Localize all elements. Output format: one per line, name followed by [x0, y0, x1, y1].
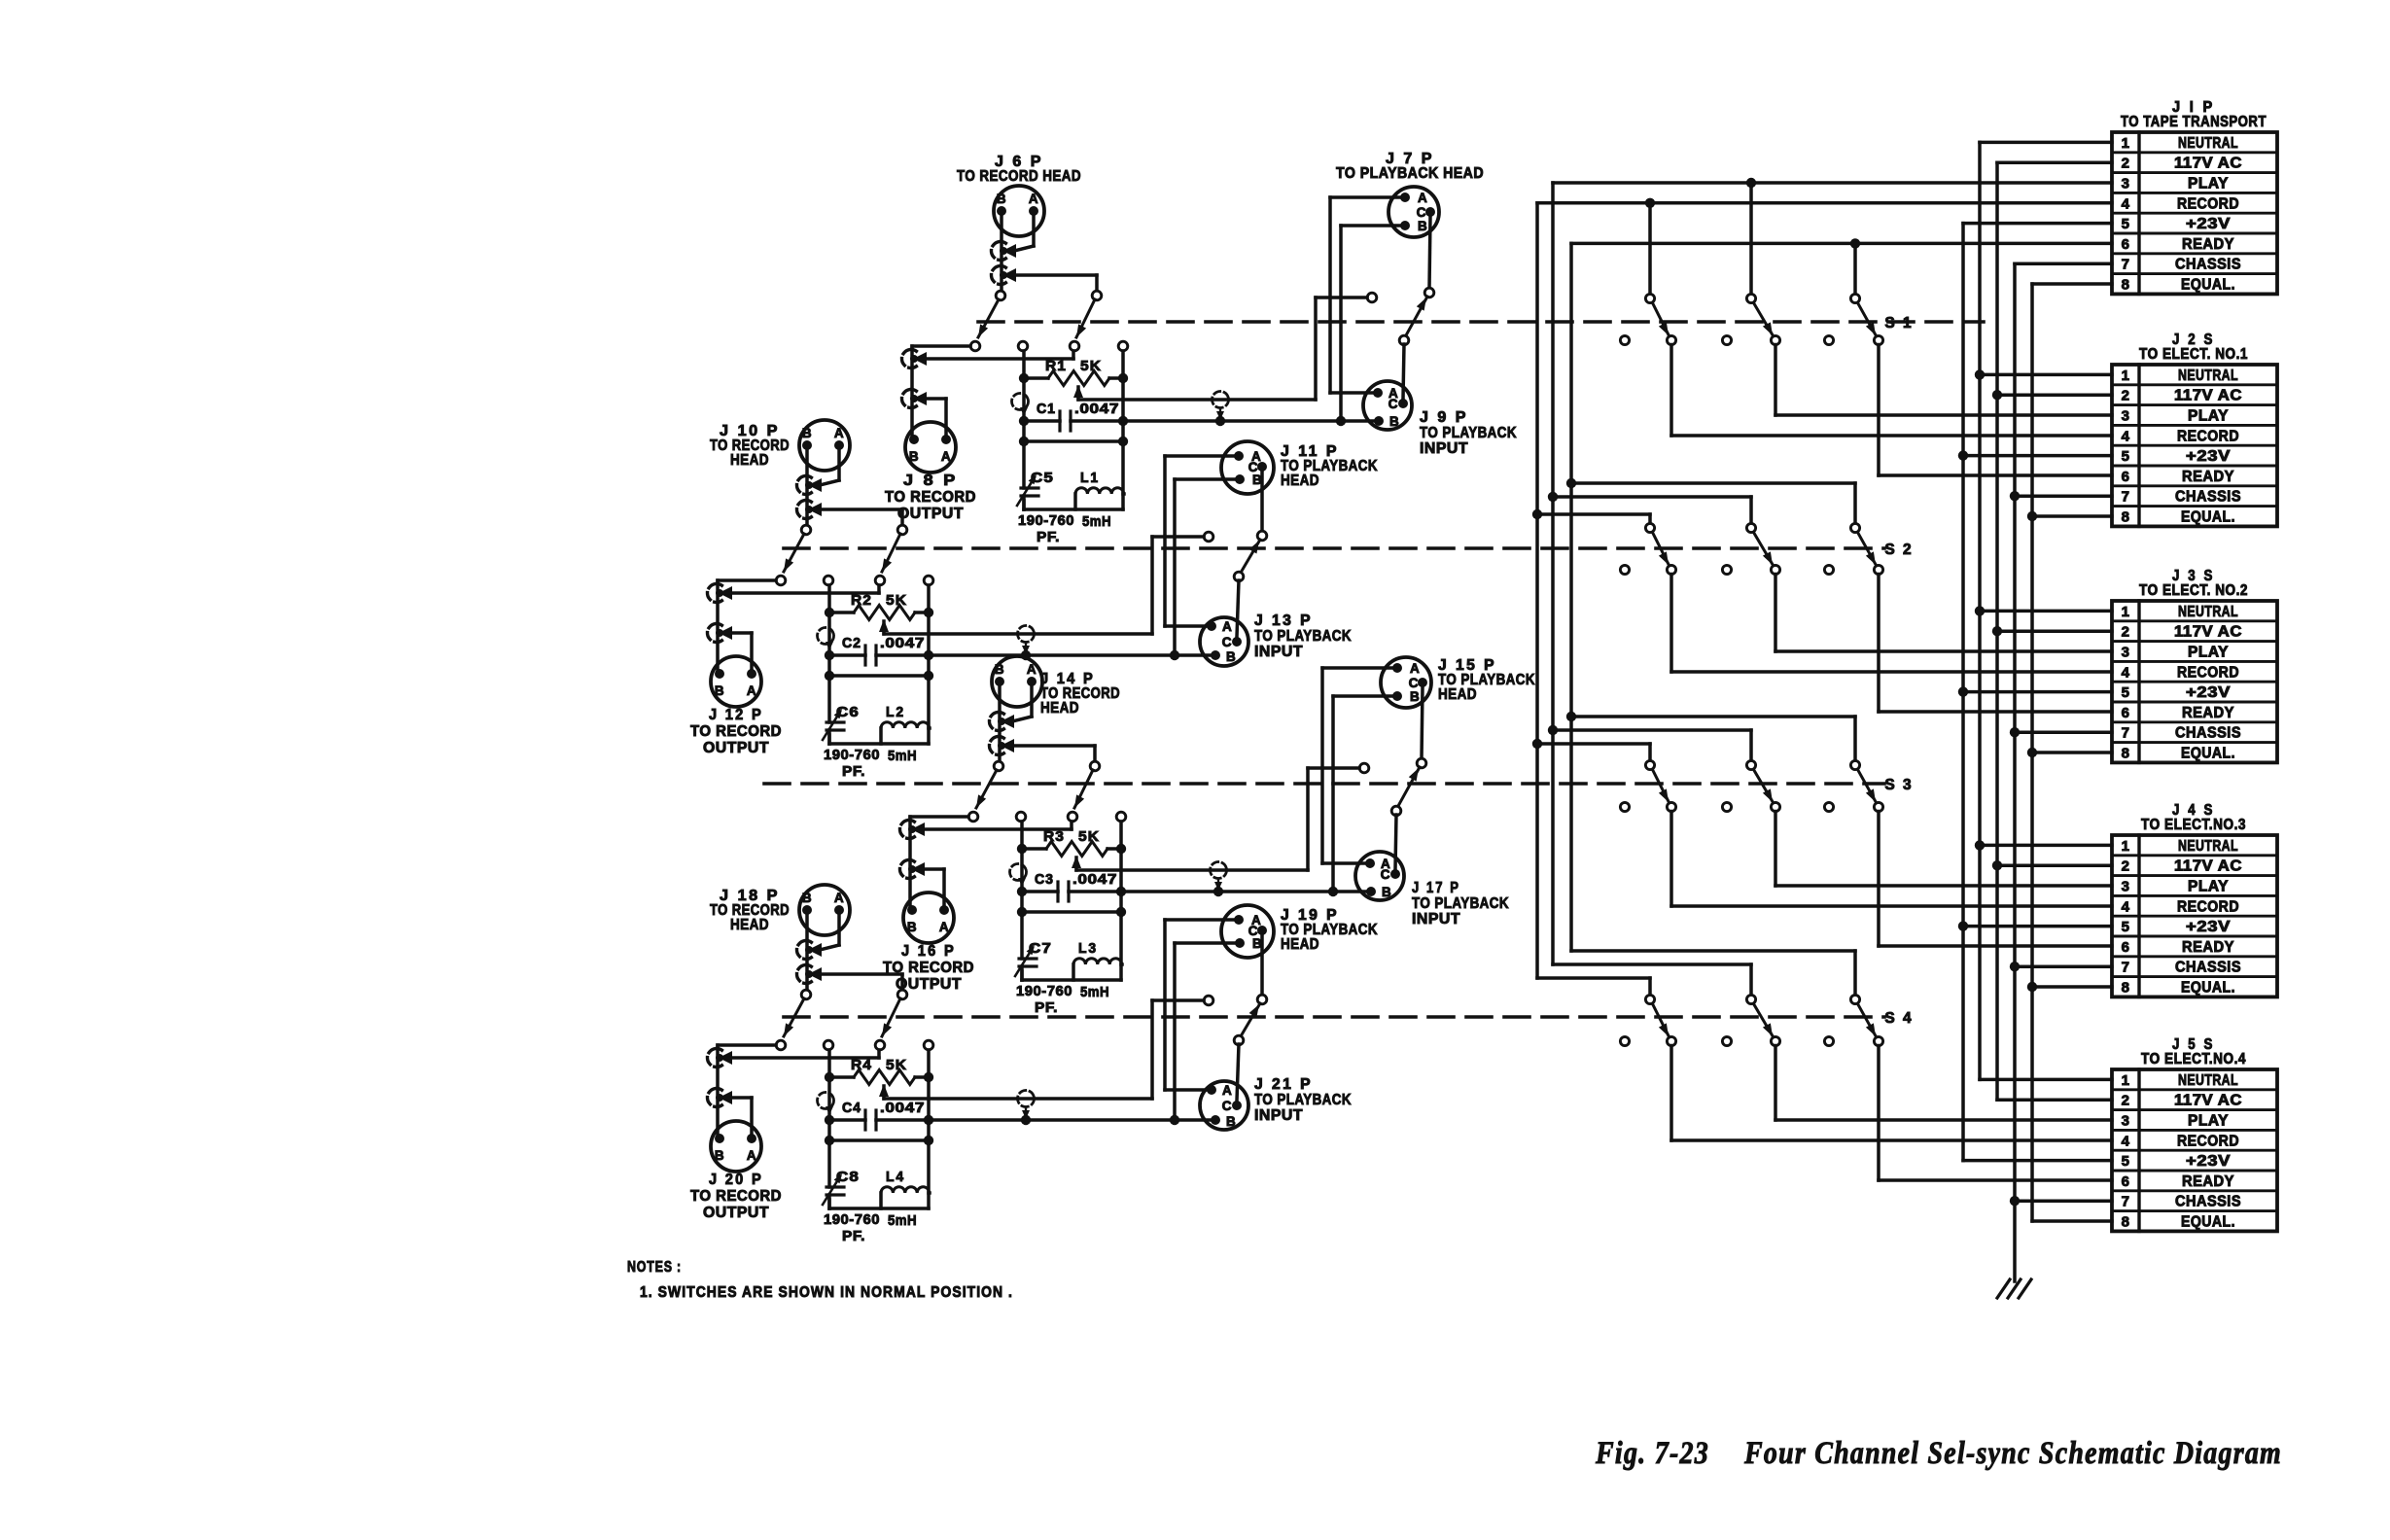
- svg-text:HEAD: HEAD: [730, 917, 769, 933]
- svg-text:C: C: [1388, 397, 1398, 411]
- svg-text:190-760: 190-760: [1016, 983, 1072, 999]
- svg-text:2: 2: [2122, 858, 2130, 875]
- svg-text:C7: C7: [1029, 940, 1052, 957]
- svg-text:TO PLAYBACK: TO PLAYBACK: [1412, 895, 1509, 912]
- svg-text:3: 3: [2122, 176, 2130, 192]
- svg-text:EQUAL.: EQUAL.: [2181, 1214, 2235, 1231]
- svg-text:HEAD: HEAD: [1040, 700, 1079, 717]
- svg-text:CHASSIS: CHASSIS: [2175, 960, 2241, 976]
- svg-text:4: 4: [2122, 195, 2130, 212]
- svg-text:+23V: +23V: [2186, 448, 2231, 465]
- svg-text:4: 4: [2122, 428, 2130, 444]
- svg-text:2: 2: [2122, 156, 2130, 172]
- svg-text:6: 6: [2122, 939, 2130, 956]
- svg-text:3: 3: [2122, 879, 2130, 895]
- svg-text:NEUTRAL: NEUTRAL: [2178, 1072, 2238, 1089]
- svg-text:PF.: PF.: [1037, 529, 1060, 545]
- svg-text:C: C: [1417, 205, 1426, 220]
- svg-text:C1: C1: [1037, 401, 1056, 417]
- svg-text:L1: L1: [1080, 470, 1100, 486]
- svg-text:PF.: PF.: [1035, 999, 1058, 1016]
- svg-text:5K: 5K: [886, 1057, 907, 1073]
- svg-text:CHASSIS: CHASSIS: [2175, 725, 2241, 742]
- svg-text:A: A: [747, 683, 756, 698]
- svg-text:7: 7: [2122, 257, 2130, 273]
- svg-text:C: C: [1222, 1099, 1232, 1113]
- svg-text:A: A: [1222, 1083, 1232, 1098]
- svg-text:B: B: [907, 920, 917, 934]
- svg-text:EQUAL.: EQUAL.: [2181, 277, 2235, 294]
- svg-text:190-760: 190-760: [824, 747, 880, 763]
- svg-text:190-760: 190-760: [1018, 512, 1074, 529]
- svg-text:R4: R4: [851, 1057, 872, 1073]
- svg-text:8: 8: [2122, 1214, 2130, 1231]
- svg-text:C5: C5: [1031, 470, 1054, 486]
- svg-text:1: 1: [2122, 604, 2130, 620]
- svg-text:+23V: +23V: [2186, 684, 2231, 701]
- svg-text:PLAY: PLAY: [2188, 176, 2229, 192]
- svg-text:RECORD: RECORD: [2177, 195, 2239, 212]
- svg-text:5K: 5K: [1078, 828, 1100, 845]
- svg-text:C: C: [1409, 676, 1419, 690]
- svg-text:2: 2: [2122, 388, 2130, 404]
- svg-text:TO RECORD: TO RECORD: [690, 723, 782, 740]
- svg-text:C4: C4: [842, 1100, 861, 1116]
- svg-text:7: 7: [2122, 489, 2130, 506]
- svg-text:6: 6: [2122, 236, 2130, 253]
- svg-text:OUTPUT: OUTPUT: [897, 506, 964, 522]
- svg-text:RECORD: RECORD: [2177, 898, 2239, 915]
- svg-text:J 17 P: J 17 P: [1412, 880, 1460, 896]
- svg-text:PLAY: PLAY: [2188, 408, 2229, 425]
- svg-text:TO TAPE TRANSPORT: TO TAPE TRANSPORT: [2121, 114, 2267, 130]
- svg-text:TO PLAYBACK: TO PLAYBACK: [1254, 628, 1352, 645]
- svg-text:1: 1: [2122, 838, 2130, 855]
- svg-text:R3: R3: [1043, 828, 1065, 845]
- svg-text:5: 5: [2122, 216, 2130, 232]
- svg-text:INPUT: INPUT: [1412, 911, 1460, 927]
- svg-text:TO RECORD HEAD: TO RECORD HEAD: [957, 168, 1081, 185]
- svg-text:1: 1: [2122, 367, 2130, 384]
- svg-text:R2: R2: [851, 592, 872, 609]
- svg-text:EQUAL.: EQUAL.: [2181, 509, 2235, 526]
- svg-text:TO ELECT.NO.3: TO ELECT.NO.3: [2141, 817, 2246, 833]
- svg-text:.0047: .0047: [880, 1100, 925, 1116]
- svg-text:B: B: [802, 891, 812, 905]
- svg-text:HEAD: HEAD: [1438, 686, 1477, 703]
- svg-text:5: 5: [2122, 919, 2130, 935]
- svg-text:1: 1: [2122, 1072, 2130, 1089]
- svg-text:TO RECORD: TO RECORD: [885, 489, 976, 506]
- svg-text:C2: C2: [842, 635, 861, 651]
- svg-text:PF.: PF.: [842, 1228, 865, 1244]
- svg-text:NEUTRAL: NEUTRAL: [2178, 135, 2238, 152]
- svg-text:S 4: S 4: [1884, 1010, 1913, 1027]
- svg-text:117V AC: 117V AC: [2174, 156, 2242, 172]
- svg-text:5: 5: [2122, 684, 2130, 701]
- svg-text:A: A: [939, 920, 949, 934]
- svg-text:TO PLAYBACK HEAD: TO PLAYBACK HEAD: [1336, 165, 1484, 182]
- svg-text:5mH: 5mH: [888, 1212, 917, 1229]
- svg-text:J 8 P: J 8 P: [903, 472, 958, 489]
- svg-text:READY: READY: [2182, 1173, 2234, 1190]
- svg-text:.0047: .0047: [1074, 401, 1119, 417]
- svg-text:TO ELECT. NO.1: TO ELECT. NO.1: [2139, 346, 2248, 363]
- svg-text:S 3: S 3: [1884, 777, 1913, 793]
- svg-text:B: B: [995, 662, 1004, 677]
- svg-text:READY: READY: [2182, 939, 2234, 956]
- svg-text:PLAY: PLAY: [2188, 1113, 2229, 1130]
- svg-text:HEAD: HEAD: [1281, 472, 1319, 489]
- svg-text:TO ELECT.NO.4: TO ELECT.NO.4: [2141, 1051, 2246, 1067]
- svg-text:7: 7: [2122, 1194, 2130, 1210]
- svg-text:B: B: [1382, 885, 1391, 899]
- svg-text:NEUTRAL: NEUTRAL: [2178, 838, 2238, 855]
- svg-text:5mH: 5mH: [1082, 513, 1111, 530]
- svg-text:INPUT: INPUT: [1254, 644, 1303, 660]
- svg-text:NEUTRAL: NEUTRAL: [2178, 367, 2238, 384]
- svg-text:PF.: PF.: [842, 763, 865, 780]
- svg-text:A: A: [1410, 661, 1420, 676]
- svg-text:B: B: [1418, 219, 1427, 233]
- svg-text:READY: READY: [2182, 705, 2234, 721]
- svg-text:1. SWITCHES ARE SHOWN IN N: 1. SWITCHES ARE SHOWN IN NORMAL POSITION…: [640, 1284, 1013, 1301]
- svg-text:5: 5: [2122, 448, 2130, 465]
- svg-text:8: 8: [2122, 509, 2130, 526]
- svg-text:TO RECORD: TO RECORD: [690, 1188, 782, 1205]
- svg-text:R1: R1: [1045, 358, 1067, 374]
- svg-text:B: B: [1226, 1114, 1236, 1129]
- svg-text:117V AC: 117V AC: [2174, 388, 2242, 404]
- svg-text:PLAY: PLAY: [2188, 879, 2229, 895]
- svg-text:S 2: S 2: [1884, 542, 1913, 558]
- svg-text:RECORD: RECORD: [2177, 428, 2239, 444]
- svg-text:B: B: [909, 449, 919, 464]
- svg-text:5mH: 5mH: [1080, 984, 1109, 1000]
- svg-text:8: 8: [2122, 980, 2130, 997]
- svg-text:A: A: [834, 891, 844, 905]
- svg-text:117V AC: 117V AC: [2174, 624, 2242, 641]
- svg-text:Fig. 7-23: Fig. 7-23: [1595, 1436, 1709, 1471]
- svg-text:C: C: [1381, 867, 1390, 882]
- svg-text:+23V: +23V: [2186, 1153, 2231, 1170]
- svg-text:.0047: .0047: [1072, 871, 1117, 888]
- svg-text:2: 2: [2122, 624, 2130, 641]
- svg-text:PLAY: PLAY: [2188, 645, 2229, 661]
- svg-text:4: 4: [2122, 1133, 2130, 1149]
- svg-text:INPUT: INPUT: [1254, 1107, 1303, 1124]
- svg-text:CHASSIS: CHASSIS: [2175, 257, 2241, 273]
- svg-text:C3: C3: [1035, 871, 1054, 888]
- svg-text:NOTES :: NOTES :: [627, 1259, 682, 1276]
- svg-text:L4: L4: [886, 1169, 905, 1185]
- svg-text:J 21 P: J 21 P: [1254, 1076, 1313, 1093]
- svg-text:EQUAL.: EQUAL.: [2181, 746, 2235, 762]
- svg-text:NEUTRAL: NEUTRAL: [2178, 604, 2238, 620]
- svg-text:5: 5: [2122, 1153, 2130, 1170]
- svg-text:J 12 P: J 12 P: [709, 707, 763, 723]
- svg-text:C: C: [1222, 635, 1232, 649]
- svg-text:117V AC: 117V AC: [2174, 858, 2242, 875]
- svg-text:TO ELECT. NO.2: TO ELECT. NO.2: [2139, 582, 2248, 599]
- svg-text:B: B: [715, 683, 724, 698]
- svg-text:INPUT: INPUT: [1420, 440, 1468, 457]
- svg-text:8: 8: [2122, 746, 2130, 762]
- svg-text:TO PLAYBACK: TO PLAYBACK: [1254, 1092, 1352, 1108]
- svg-text:B: B: [997, 192, 1006, 206]
- svg-text:J 9 P: J 9 P: [1420, 409, 1468, 426]
- svg-text:READY: READY: [2182, 236, 2234, 253]
- svg-text:HEAD: HEAD: [1281, 936, 1319, 953]
- svg-text:J 20 P: J 20 P: [709, 1172, 763, 1188]
- svg-text:3: 3: [2122, 408, 2130, 425]
- svg-text:5K: 5K: [1080, 358, 1102, 374]
- svg-text:OUTPUT: OUTPUT: [703, 1205, 769, 1221]
- svg-text:7: 7: [2122, 725, 2130, 742]
- svg-text:1: 1: [2122, 135, 2130, 152]
- svg-text:4: 4: [2122, 898, 2130, 915]
- svg-text:B: B: [715, 1148, 724, 1163]
- svg-text:.0047: .0047: [880, 635, 925, 651]
- svg-text:+23V: +23V: [2186, 919, 2231, 935]
- svg-text:C8: C8: [836, 1169, 860, 1185]
- svg-text:4: 4: [2122, 664, 2130, 681]
- svg-text:CHASSIS: CHASSIS: [2175, 489, 2241, 506]
- svg-text:B: B: [1226, 649, 1236, 664]
- svg-text:7: 7: [2122, 960, 2130, 976]
- svg-text:J 13 P: J 13 P: [1254, 612, 1313, 629]
- svg-text:B: B: [1389, 414, 1399, 429]
- svg-text:RECORD: RECORD: [2177, 1133, 2239, 1149]
- svg-text:8: 8: [2122, 277, 2130, 294]
- svg-text:6: 6: [2122, 705, 2130, 721]
- svg-text:117V AC: 117V AC: [2174, 1093, 2242, 1109]
- svg-text:A: A: [1029, 192, 1038, 206]
- svg-text:6: 6: [2122, 469, 2130, 485]
- svg-text:OUTPUT: OUTPUT: [703, 740, 769, 756]
- svg-text:B: B: [802, 426, 812, 440]
- svg-text:3: 3: [2122, 1113, 2130, 1130]
- svg-text:TO PLAYBACK: TO PLAYBACK: [1420, 425, 1517, 441]
- svg-text:6: 6: [2122, 1173, 2130, 1190]
- svg-text:3: 3: [2122, 645, 2130, 661]
- svg-text:A: A: [834, 426, 844, 440]
- svg-text:A: A: [1222, 619, 1232, 634]
- svg-text:C6: C6: [836, 704, 860, 720]
- svg-text:Four Channel Sel-sync Schem: Four Channel Sel-sync Schematic Diagram: [1743, 1436, 2282, 1471]
- svg-text:L2: L2: [886, 704, 905, 720]
- svg-text:+23V: +23V: [2186, 216, 2231, 232]
- svg-text:J 16 P: J 16 P: [901, 943, 956, 960]
- svg-text:B: B: [1410, 689, 1420, 704]
- svg-text:2: 2: [2122, 1093, 2130, 1109]
- svg-text:A: A: [1418, 191, 1427, 205]
- svg-text:5K: 5K: [886, 592, 907, 609]
- svg-text:RECORD: RECORD: [2177, 664, 2239, 681]
- svg-text:HEAD: HEAD: [730, 452, 769, 469]
- svg-text:CHASSIS: CHASSIS: [2175, 1194, 2241, 1210]
- svg-text:A: A: [1027, 662, 1037, 677]
- svg-text:A: A: [747, 1148, 756, 1163]
- svg-text:190-760: 190-760: [824, 1211, 880, 1228]
- svg-text:EQUAL.: EQUAL.: [2181, 980, 2235, 997]
- svg-text:A: A: [941, 449, 951, 464]
- svg-text:READY: READY: [2182, 469, 2234, 485]
- svg-text:5mH: 5mH: [888, 748, 917, 764]
- svg-text:L3: L3: [1078, 940, 1098, 957]
